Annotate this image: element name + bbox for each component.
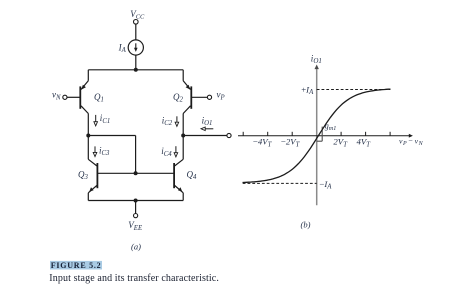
svg-text:Input stage and its transfer c: Input stage and its transfer characteris… <box>49 273 219 284</box>
svg-text:(b): (b) <box>301 220 311 230</box>
svg-text:(a): (a) <box>131 241 141 251</box>
svg-text:FIGURE 5.2: FIGURE 5.2 <box>51 261 102 270</box>
